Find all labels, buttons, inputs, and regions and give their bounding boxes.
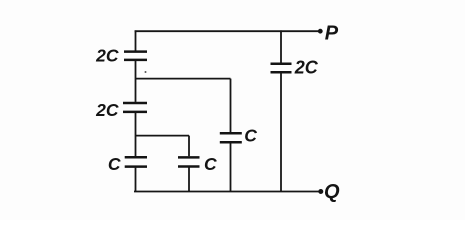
node P terminal dot bbox=[318, 29, 323, 34]
svg-text:P: P bbox=[325, 23, 339, 45]
speckle artifact bbox=[145, 71, 147, 73]
node Q terminal dot bbox=[318, 189, 323, 194]
wire branch 3 vertical upper bbox=[188, 136, 190, 157]
capacitor C (bottom left) plates bbox=[125, 156, 147, 159]
wire left column segment top bbox=[135, 30, 137, 50]
wire branch 2 vertical upper bbox=[230, 79, 232, 133]
wire left column segment between cap 2C1 and cap 2C2 bbox=[135, 61, 137, 102]
svg-text:2C: 2C bbox=[95, 100, 119, 120]
wire left column segment between cap 2C2 and cap C3 bbox=[135, 113, 137, 156]
capacitor C (bottom middle) plates bbox=[178, 156, 200, 159]
wire left column segment bottom bbox=[135, 168, 137, 192]
svg-text:2C: 2C bbox=[294, 57, 319, 77]
svg-text:Q: Q bbox=[324, 181, 340, 203]
wire right column upper bbox=[280, 30, 282, 62]
capacitor 2C (right branch) plates bbox=[271, 62, 292, 65]
svg-text:C: C bbox=[108, 154, 121, 174]
svg-text:C: C bbox=[244, 125, 257, 145]
wire bottom (node Q rail) bbox=[134, 191, 320, 193]
wire branch 2 horizontal bbox=[136, 78, 231, 80]
wire branch 3 horizontal bbox=[136, 135, 190, 137]
wire top (node P rail) bbox=[135, 30, 320, 32]
wire right column lower bbox=[280, 73, 282, 191]
capacitor C (middle branch) plates bbox=[220, 132, 242, 135]
wire branch 3 vertical lower bbox=[188, 168, 190, 192]
svg-text:2C: 2C bbox=[95, 46, 119, 66]
capacitor 2C (second left) plates bbox=[123, 102, 147, 105]
svg-text:C: C bbox=[204, 154, 217, 174]
capacitor 2C (top left) plates bbox=[124, 50, 147, 53]
wire branch 2 vertical lower bbox=[230, 143, 232, 191]
